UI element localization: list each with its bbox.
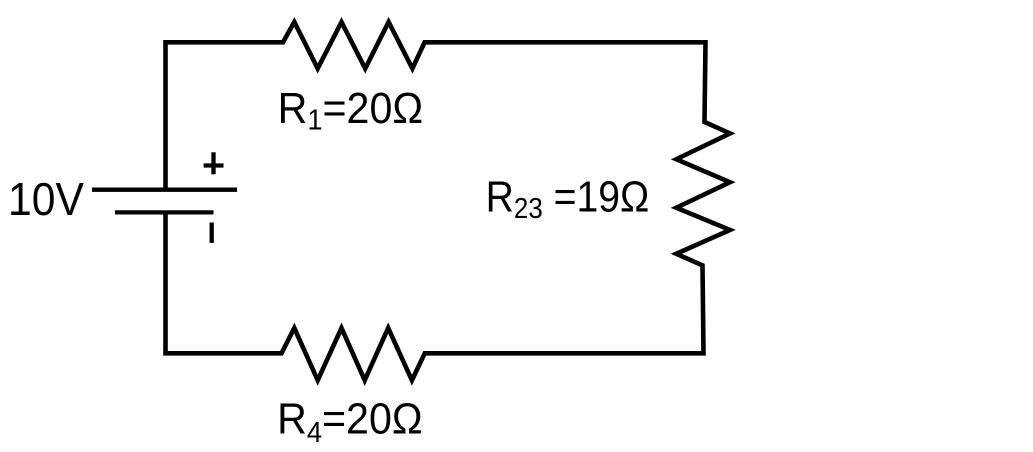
svg-text:R4=20Ω: R4=20Ω [277,395,423,448]
svg-text:10V: 10V [8,175,84,226]
svg-text:R23 =19Ω: R23 =19Ω [486,171,650,224]
svg-text:R1=20Ω: R1=20Ω [278,85,424,136]
